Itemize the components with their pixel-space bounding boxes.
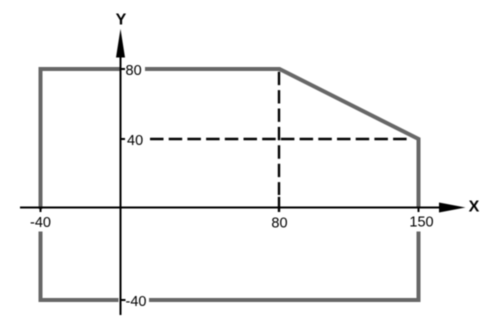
svg-text:40: 40 (127, 133, 143, 149)
X axis line (20, 207, 441, 209)
tick at x=80 on X axis (278, 197, 280, 212)
Y axis line (120, 55, 122, 315)
svg-text:-40: -40 (30, 215, 51, 231)
Y axis arrowhead (116, 29, 125, 58)
svg-text:X: X (469, 199, 480, 216)
svg-text:Y: Y (116, 12, 127, 29)
tick at y=40 on Y axis (121, 138, 126, 140)
X axis arrowhead (439, 203, 466, 213)
tick at y=80 on Y axis (121, 68, 126, 70)
svg-text:80: 80 (271, 216, 287, 232)
svg-text:-40: -40 (126, 294, 147, 310)
svg-text:80: 80 (126, 63, 142, 79)
tick at x=-40 on X axis (40, 207, 42, 213)
part outline: left edge lower segment and bottom-left corner (41, 232, 119, 301)
dashed construction line horizontal at y=40 (150, 138, 407, 140)
tick at x=150 on X axis (418, 207, 420, 213)
svg-text:150: 150 (409, 215, 433, 231)
tick at y=-40 on Y axis (121, 299, 126, 301)
dashed construction line vertical at x=80 (278, 72, 280, 195)
part outline: top edge (right of 80 label), slant, right edge upper segment (145, 69, 419, 209)
part outline: top-left corner and left edge (upper segment) (41, 69, 121, 209)
part outline: right edge lower segment and bottom edge (right of -40 label) (149, 232, 419, 301)
